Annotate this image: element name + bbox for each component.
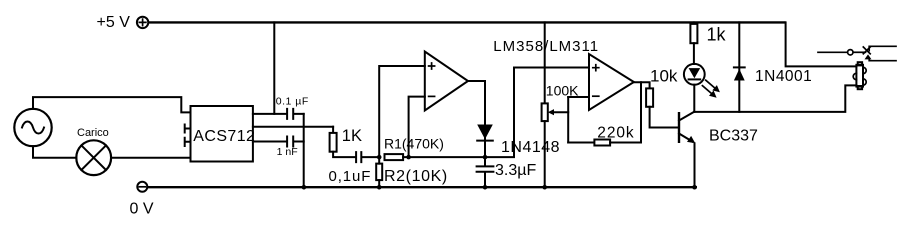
- svg-text:0,1uF: 0,1uF: [329, 168, 372, 185]
- svg-text:+5 V: +5 V: [97, 14, 131, 31]
- svg-text:220k: 220k: [597, 124, 634, 141]
- svg-text:1k: 1k: [707, 25, 727, 45]
- svg-text:1N4148: 1N4148: [501, 139, 560, 156]
- svg-text:1K: 1K: [342, 127, 362, 145]
- svg-text:BC337: BC337: [709, 128, 758, 145]
- svg-text:1 nF: 1 nF: [277, 146, 298, 158]
- svg-text:R1(470K): R1(470K): [384, 135, 444, 151]
- svg-text:0 V: 0 V: [130, 200, 154, 217]
- svg-text:Carico: Carico: [77, 127, 109, 139]
- svg-text:LM358/LM311: LM358/LM311: [493, 38, 599, 55]
- svg-text:0.1 µF: 0.1 µF: [276, 96, 309, 108]
- svg-text:R2(10K): R2(10K): [384, 168, 448, 185]
- svg-text:10k: 10k: [650, 67, 678, 86]
- svg-text:ACS712: ACS712: [193, 128, 255, 145]
- svg-text:1N4001: 1N4001: [755, 68, 812, 85]
- svg-text:3.3µF: 3.3µF: [495, 162, 536, 179]
